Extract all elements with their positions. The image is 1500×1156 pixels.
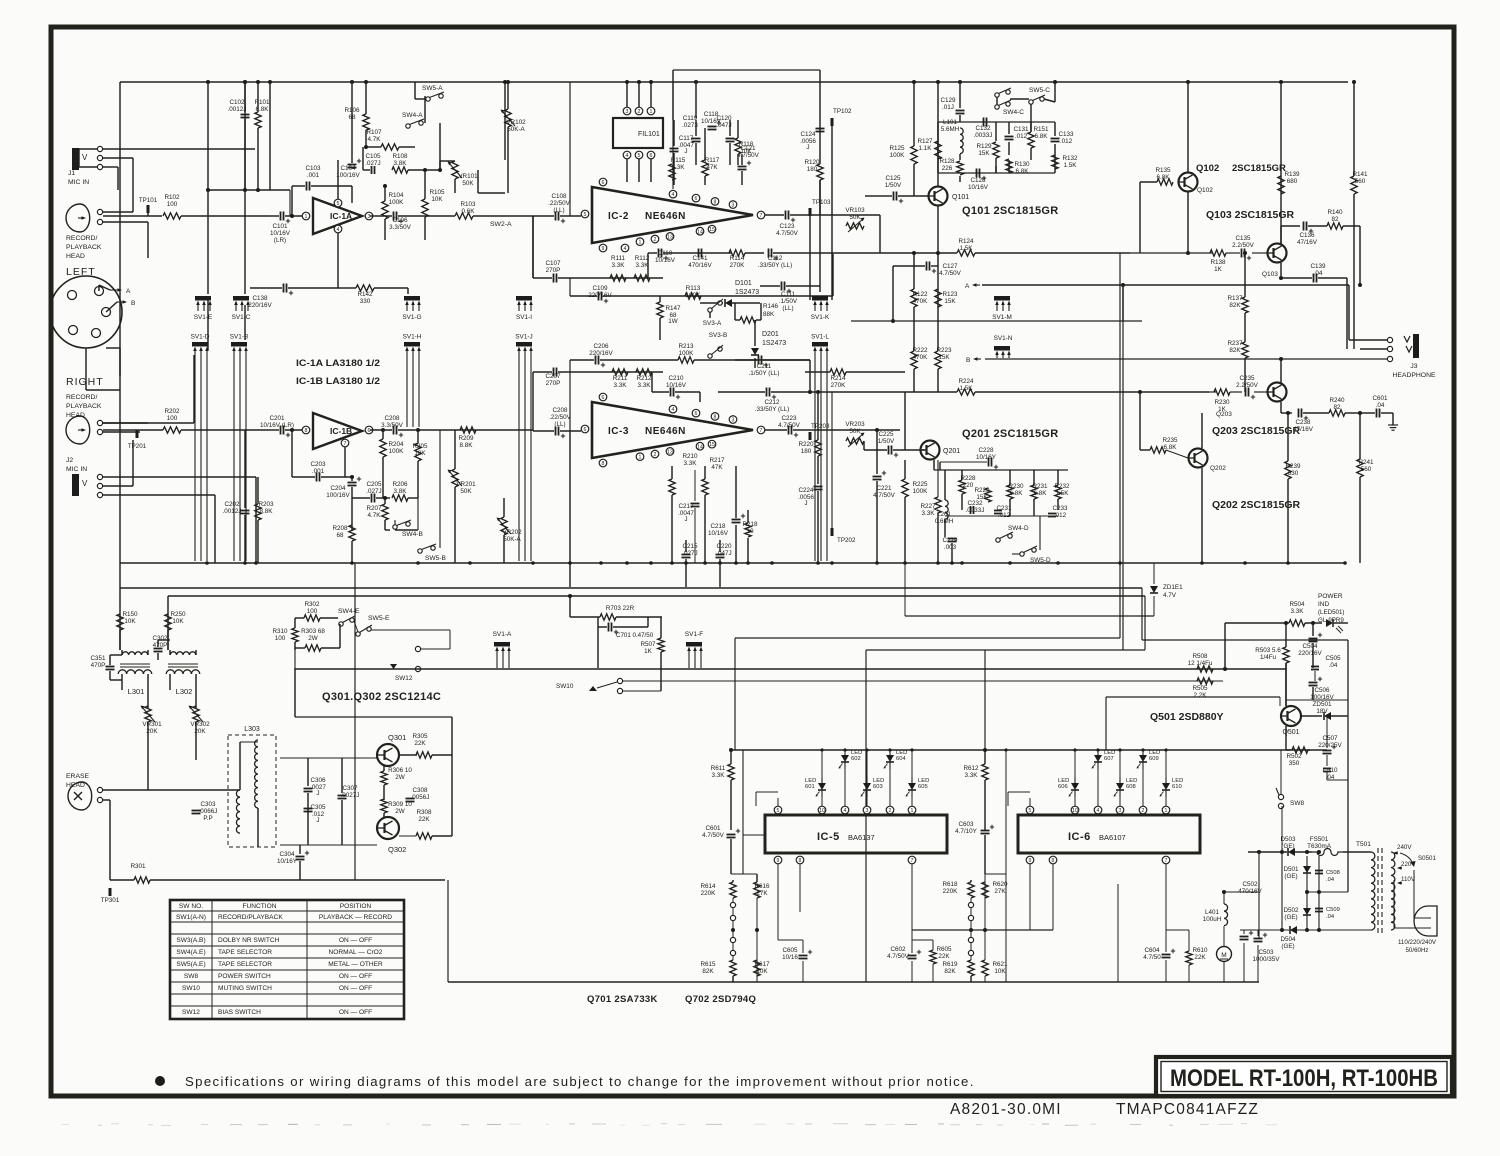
svg-text:V: V — [82, 153, 88, 162]
svg-text:2SC1815GR: 2SC1815GR — [1232, 163, 1286, 174]
svg-text:180: 180 — [807, 166, 818, 173]
svg-text:R301: R301 — [130, 863, 146, 870]
svg-text:RECORD/: RECORD/ — [66, 235, 97, 242]
svg-text:100K: 100K — [679, 350, 695, 357]
svg-text:ON — OFF: ON — OFF — [339, 985, 372, 992]
svg-text:8.8K: 8.8K — [260, 508, 274, 515]
svg-text:C136: C136 — [1299, 232, 1315, 239]
svg-text:10/16V (LR): 10/16V (LR) — [260, 422, 294, 429]
svg-text:110/220/240V: 110/220/240V — [1398, 939, 1437, 946]
svg-text:100K: 100K — [890, 152, 906, 159]
svg-text:SV1-E: SV1-E — [194, 314, 212, 321]
svg-text:J: J — [316, 817, 319, 824]
svg-text:Q501: Q501 — [1282, 729, 1299, 736]
svg-text:220/25V: 220/25V — [1318, 742, 1342, 749]
svg-text:10/16Y: 10/16Y — [976, 454, 997, 461]
svg-text:1: 1 — [639, 455, 642, 461]
svg-text:(GE): (GE) — [1281, 943, 1294, 950]
svg-text:50K: 50K — [462, 180, 474, 187]
svg-text:R208: R208 — [332, 525, 348, 532]
svg-text:POSITION: POSITION — [340, 903, 372, 910]
svg-text:ZD1E1: ZD1E1 — [1163, 584, 1183, 591]
svg-text:R615: R615 — [700, 961, 716, 968]
svg-text:.012: .012 — [1015, 133, 1028, 140]
svg-text:C220: C220 — [716, 543, 732, 550]
svg-text:TP101: TP101 — [139, 197, 158, 204]
svg-text:2: 2 — [1142, 808, 1145, 814]
svg-text:SV1-L: SV1-L — [811, 334, 829, 341]
svg-text:R209: R209 — [458, 435, 474, 442]
svg-text:2.2/50V: 2.2/50V — [1236, 382, 1259, 389]
svg-text:C503: C503 — [1258, 949, 1274, 956]
svg-text:J: J — [684, 516, 687, 523]
svg-text:8: 8 — [1052, 858, 1055, 864]
svg-text:R213: R213 — [678, 343, 694, 350]
svg-text:A8201-30.0MI: A8201-30.0MI — [950, 1101, 1062, 1118]
svg-text:50K-A: 50K-A — [507, 126, 525, 133]
svg-text:C225: C225 — [878, 431, 894, 438]
svg-text:(GE): (GE) — [1284, 914, 1297, 921]
svg-text:0.6MH: 0.6MH — [935, 518, 954, 525]
svg-text:Q301.Q302 2SC1214C: Q301.Q302 2SC1214C — [322, 691, 441, 703]
svg-text:Q301: Q301 — [388, 733, 406, 742]
svg-text:3.3K: 3.3K — [614, 382, 628, 389]
svg-text:FS501: FS501 — [1310, 836, 1329, 843]
svg-text:BIAS SWITCH: BIAS SWITCH — [218, 1009, 261, 1016]
svg-text:C505: C505 — [1325, 655, 1341, 662]
svg-text:.33/50Y (LL): .33/50Y (LL) — [758, 262, 793, 269]
svg-text:R127: R127 — [917, 138, 933, 145]
svg-text:C351: C351 — [90, 655, 106, 662]
svg-text:R206: R206 — [392, 481, 408, 488]
svg-text:C139: C139 — [1310, 263, 1326, 270]
svg-text:1/4Fu: 1/4Fu — [1260, 654, 1277, 661]
svg-text:10K: 10K — [124, 618, 136, 625]
svg-text:C605: C605 — [782, 947, 798, 954]
svg-text:C602: C602 — [890, 946, 906, 953]
svg-text:5: 5 — [777, 808, 780, 814]
svg-text:.0033J: .0033J — [966, 507, 985, 514]
svg-text:D101: D101 — [735, 280, 752, 287]
svg-text:13: 13 — [667, 235, 673, 241]
svg-text:6: 6 — [650, 153, 653, 159]
svg-text:8: 8 — [602, 461, 605, 467]
svg-text:.0012J: .0012J — [228, 106, 247, 113]
svg-text:1: 1 — [650, 109, 653, 115]
svg-text:1.5K: 1.5K — [1064, 162, 1078, 169]
svg-text:SW4(A.E): SW4(A.E) — [176, 949, 205, 956]
svg-text:Q501 2SD880Y: Q501 2SD880Y — [1150, 711, 1224, 723]
svg-text:TAPE SELECTOR: TAPE SELECTOR — [218, 949, 272, 956]
svg-text:6: 6 — [695, 411, 698, 417]
svg-text:L303: L303 — [244, 726, 260, 733]
svg-text:470/16V: 470/16V — [688, 262, 712, 269]
svg-text:14: 14 — [697, 444, 703, 450]
svg-text:SW4-E: SW4-E — [338, 608, 360, 615]
svg-text:(LED501): (LED501) — [1318, 609, 1344, 616]
svg-text:270K: 270K — [730, 262, 746, 269]
svg-text:C208: C208 — [552, 407, 568, 414]
svg-text:4.7K: 4.7K — [368, 512, 382, 519]
svg-text:4: 4 — [626, 153, 629, 159]
svg-text:1S2473: 1S2473 — [735, 289, 759, 296]
svg-text:Q302: Q302 — [388, 845, 406, 854]
svg-text:2W: 2W — [395, 774, 405, 781]
svg-text:SV1-J: SV1-J — [515, 334, 532, 341]
svg-text:10/16Y: 10/16Y — [277, 858, 298, 865]
svg-text:.0012J: .0012J — [223, 508, 242, 515]
svg-text:VR103: VR103 — [845, 207, 865, 214]
svg-text:13: 13 — [667, 450, 673, 456]
svg-text:C206: C206 — [593, 343, 609, 350]
svg-text:4.7V: 4.7V — [1163, 592, 1177, 599]
svg-text:Q202: Q202 — [1210, 465, 1226, 472]
svg-text:3: 3 — [732, 203, 735, 209]
svg-text:HEAD: HEAD — [66, 412, 85, 419]
svg-text:R222: R222 — [912, 347, 928, 354]
svg-text:R204: R204 — [388, 441, 404, 448]
svg-text:TP202: TP202 — [837, 537, 856, 544]
svg-text:R202: R202 — [164, 408, 180, 415]
svg-text:4.7/50V: 4.7/50V — [737, 152, 760, 159]
svg-text:C118: C118 — [704, 111, 719, 118]
svg-text:8: 8 — [714, 415, 717, 421]
svg-text:R505: R505 — [1192, 685, 1208, 692]
svg-text:R611: R611 — [711, 765, 726, 772]
svg-text:3: 3 — [1119, 808, 1122, 814]
svg-text:J: J — [804, 500, 807, 507]
svg-text:R150: R150 — [122, 611, 138, 618]
svg-text:R220: R220 — [798, 441, 814, 448]
svg-text:3.3K: 3.3K — [684, 460, 698, 467]
svg-text:3.8K: 3.8K — [394, 488, 408, 495]
svg-text:R147: R147 — [665, 305, 681, 312]
svg-text:7: 7 — [344, 441, 347, 447]
svg-text:R502: R502 — [1286, 753, 1302, 760]
svg-text:C201: C201 — [269, 415, 285, 422]
svg-text:METAL — OTHER: METAL — OTHER — [328, 961, 383, 968]
svg-text:SW5-B: SW5-B — [425, 555, 446, 562]
svg-text:R107: R107 — [366, 129, 382, 136]
svg-text:D503: D503 — [1280, 836, 1296, 843]
svg-text:5: 5 — [584, 212, 587, 218]
svg-text:10/16V: 10/16V — [708, 530, 729, 537]
svg-text:R214: R214 — [830, 375, 846, 382]
svg-text:L401: L401 — [1205, 909, 1220, 916]
svg-text:SW4-D: SW4-D — [1008, 525, 1029, 532]
svg-text:R305: R305 — [412, 733, 428, 740]
svg-text:.04: .04 — [1314, 270, 1323, 277]
svg-text:C221: C221 — [876, 485, 892, 492]
svg-text:RIGHT: RIGHT — [66, 376, 104, 388]
svg-text:8.8K: 8.8K — [460, 442, 474, 449]
svg-text:C215: C215 — [682, 543, 698, 550]
svg-text:2.2K: 2.2K — [1194, 692, 1208, 699]
svg-text:100: 100 — [167, 201, 178, 208]
svg-text:D201: D201 — [762, 331, 779, 338]
svg-text:(LL): (LL) — [782, 305, 793, 312]
svg-text:R124: R124 — [958, 238, 974, 245]
svg-text:100K: 100K — [389, 199, 405, 206]
svg-text:R223: R223 — [936, 347, 952, 354]
svg-text:R230: R230 — [1214, 399, 1230, 406]
svg-text:18V: 18V — [1316, 708, 1328, 715]
svg-text:5: 5 — [337, 201, 340, 207]
svg-text:R128: R128 — [939, 158, 955, 165]
svg-text:J3: J3 — [1410, 363, 1417, 370]
svg-text:2: 2 — [889, 808, 892, 814]
svg-text:350: 350 — [1289, 760, 1300, 767]
svg-text:BA6107: BA6107 — [1099, 833, 1126, 842]
svg-text:RECORD/: RECORD/ — [66, 394, 97, 401]
svg-text:FIL101: FIL101 — [638, 131, 660, 138]
svg-text:D501: D501 — [1283, 866, 1299, 873]
svg-text:PLAYBACK — RECORD: PLAYBACK — RECORD — [319, 914, 392, 921]
svg-text:R225: R225 — [912, 481, 928, 488]
svg-text:R114: R114 — [730, 255, 745, 262]
svg-text:SW5-A: SW5-A — [422, 85, 443, 92]
svg-text:226: 226 — [942, 165, 953, 172]
svg-text:R105: R105 — [429, 189, 445, 196]
svg-text:4: 4 — [337, 227, 340, 233]
svg-text:IC-3: IC-3 — [608, 426, 629, 437]
svg-text:IC-1B: IC-1B — [330, 426, 352, 436]
svg-text:608: 608 — [1126, 784, 1136, 790]
svg-text:220/16V: 220/16V — [1298, 650, 1322, 657]
svg-text:SW NO.: SW NO. — [179, 903, 203, 910]
svg-text:4: 4 — [1097, 808, 1100, 814]
svg-text:VR201: VR201 — [456, 481, 476, 488]
svg-text:C129: C129 — [940, 97, 956, 104]
svg-text:50K-A: 50K-A — [503, 536, 521, 543]
svg-text:SV1-F: SV1-F — [685, 631, 703, 638]
svg-text:C504: C504 — [1302, 643, 1318, 650]
svg-text:6: 6 — [602, 180, 605, 186]
svg-text:R503 5.6: R503 5.6 — [1255, 647, 1281, 654]
svg-text:TP102: TP102 — [833, 108, 852, 115]
svg-text:C508: C508 — [1326, 870, 1340, 876]
svg-text:1S2473: 1S2473 — [762, 340, 786, 347]
svg-text:R142: R142 — [357, 291, 373, 298]
svg-text:50K: 50K — [849, 428, 861, 435]
svg-text:3.3/50V: 3.3/50V — [381, 422, 404, 429]
svg-text:C202: C202 — [224, 501, 240, 508]
svg-text:(LR): (LR) — [274, 237, 286, 244]
svg-text:2W: 2W — [395, 808, 405, 815]
svg-text:L302: L302 — [176, 687, 193, 696]
svg-text:C224: C224 — [798, 487, 814, 494]
svg-text:PLAYBACK: PLAYBACK — [66, 244, 102, 251]
svg-text:4.7/50: 4.7/50 — [1143, 954, 1161, 961]
svg-text:S0501: S0501 — [1418, 855, 1436, 862]
svg-text:C125: C125 — [885, 175, 901, 182]
svg-text:SW8: SW8 — [184, 973, 199, 980]
svg-text:C507: C507 — [1322, 735, 1338, 742]
svg-text:88K: 88K — [763, 311, 775, 318]
svg-text:MODEL RT-100H, RT-100HB: MODEL RT-100H, RT-100HB — [1170, 1065, 1438, 1092]
svg-text:100/16V: 100/16V — [336, 172, 360, 179]
svg-text:1W: 1W — [668, 318, 678, 325]
svg-text:(GE): (GE) — [1284, 873, 1297, 880]
svg-text:NORMAL — CrO2: NORMAL — CrO2 — [329, 949, 383, 956]
svg-text:270K: 270K — [831, 382, 847, 389]
svg-text:DOLBY NR SWITCH: DOLBY NR SWITCH — [218, 937, 280, 944]
svg-text:220/16V: 220/16V — [248, 302, 272, 309]
svg-text:C141: C141 — [692, 255, 708, 262]
svg-text:R130: R130 — [1014, 161, 1030, 168]
svg-text:7: 7 — [1165, 858, 1168, 864]
svg-text:1000/35V: 1000/35V — [1253, 956, 1281, 963]
svg-text:R203: R203 — [258, 501, 274, 508]
svg-text:SV1-G: SV1-G — [402, 314, 421, 321]
svg-text:100K: 100K — [389, 448, 405, 455]
svg-text:6.8K: 6.8K — [1016, 168, 1030, 175]
svg-text:SV1-A: SV1-A — [493, 631, 512, 638]
svg-text:J2: J2 — [66, 457, 73, 464]
svg-text:5: 5 — [638, 153, 641, 159]
svg-text:3.3K: 3.3K — [612, 262, 626, 269]
svg-text:.0033J: .0033J — [974, 132, 993, 139]
svg-text:1/50V: 1/50V — [885, 182, 902, 189]
svg-text:47K: 47K — [706, 164, 718, 171]
svg-text:R303 68: R303 68 — [301, 628, 325, 635]
svg-text:.04: .04 — [1326, 877, 1335, 883]
svg-text:R125: R125 — [889, 145, 905, 152]
svg-text:C601: C601 — [705, 825, 721, 832]
svg-text:6: 6 — [695, 196, 698, 202]
svg-text:604: 604 — [896, 756, 906, 762]
svg-text:VR301: VR301 — [142, 721, 162, 728]
svg-text:47K: 47K — [711, 464, 723, 471]
svg-text:ON — OFF: ON — OFF — [339, 937, 372, 944]
svg-text:.003: .003 — [944, 544, 957, 551]
svg-text:C306: C306 — [310, 777, 326, 784]
svg-text:C109: C109 — [592, 285, 608, 292]
svg-text:R123: R123 — [942, 291, 958, 298]
svg-text:R507: R507 — [640, 641, 656, 648]
svg-text:C204: C204 — [330, 485, 346, 492]
svg-text:4.7/50V: 4.7/50V — [776, 230, 799, 237]
svg-text:R103: R103 — [460, 201, 476, 208]
svg-text:R703 22R: R703 22R — [606, 605, 635, 612]
svg-text:C308: C308 — [412, 787, 428, 794]
svg-text:470P: 470P — [91, 662, 106, 669]
svg-text:5.6MH: 5.6MH — [941, 126, 960, 133]
svg-text:3: 3 — [732, 418, 735, 424]
svg-text:6: 6 — [584, 427, 587, 433]
svg-text:R113: R113 — [686, 285, 701, 292]
svg-text:SV1-M: SV1-M — [992, 314, 1012, 321]
svg-text:C233: C233 — [1052, 505, 1068, 512]
svg-text:SW4-A: SW4-A — [402, 112, 423, 119]
svg-text:ON — OFF: ON — OFF — [339, 1009, 372, 1016]
svg-text:C133: C133 — [1058, 131, 1074, 138]
svg-text:.04: .04 — [1329, 662, 1338, 669]
svg-text:TP301: TP301 — [101, 897, 120, 904]
svg-text:C127: C127 — [942, 263, 958, 270]
svg-text:47/16V: 47/16V — [1293, 426, 1314, 433]
svg-text:3.3/50V: 3.3/50V — [389, 224, 412, 231]
svg-text:R618: R618 — [942, 881, 958, 888]
svg-text:C138: C138 — [252, 295, 268, 302]
svg-text:C108: C108 — [551, 193, 567, 200]
svg-text:IND: IND — [1318, 601, 1330, 608]
svg-text:POWER: POWER — [1318, 593, 1343, 600]
svg-text:IC-1A LA3180 1/2: IC-1A LA3180 1/2 — [296, 358, 380, 369]
svg-text:Q203 2SC1815GR: Q203 2SC1815GR — [1212, 425, 1301, 437]
svg-text:C111: C111 — [781, 291, 796, 298]
svg-text:B: B — [131, 300, 135, 307]
svg-text:SV1-D: SV1-D — [191, 334, 210, 341]
svg-text:10/16V: 10/16V — [968, 184, 989, 191]
svg-text:3: 3 — [866, 808, 869, 814]
svg-text:R135: R135 — [1155, 167, 1171, 174]
svg-text:2.2/50V: 2.2/50V — [1232, 242, 1255, 249]
svg-text:C307: C307 — [342, 785, 358, 792]
svg-text:C305: C305 — [310, 804, 326, 811]
svg-text:R212: R212 — [636, 375, 652, 382]
svg-text:4: 4 — [624, 246, 627, 252]
svg-text:L301: L301 — [128, 687, 145, 696]
svg-text:240V: 240V — [1397, 844, 1412, 851]
svg-text:8: 8 — [799, 858, 802, 864]
svg-text:SV1-K: SV1-K — [811, 314, 830, 321]
svg-text:C131: C131 — [1013, 126, 1029, 133]
svg-text:6: 6 — [368, 428, 371, 434]
svg-text:A: A — [965, 283, 970, 290]
svg-text:.01J: .01J — [942, 104, 954, 111]
svg-text:R508: R508 — [1192, 653, 1208, 660]
svg-text:T501: T501 — [1356, 841, 1371, 848]
svg-text:R106: R106 — [344, 107, 360, 114]
svg-text:MIC IN: MIC IN — [68, 179, 89, 186]
svg-text:R146: R146 — [763, 303, 779, 310]
svg-text:4: 4 — [672, 192, 675, 198]
svg-text:R308: R308 — [416, 809, 432, 816]
svg-text:R621: R621 — [992, 961, 1008, 968]
svg-text:SV3-B: SV3-B — [709, 332, 727, 339]
svg-text:IC-6: IC-6 — [1068, 831, 1091, 843]
svg-text:15K: 15K — [978, 150, 990, 157]
svg-text:SW2-A: SW2-A — [490, 221, 512, 228]
svg-text:4: 4 — [844, 808, 847, 814]
svg-text:R306 10: R306 10 — [388, 767, 412, 774]
svg-text:330: 330 — [360, 298, 371, 305]
svg-text:607: 607 — [1104, 756, 1114, 762]
svg-text:R132: R132 — [1062, 155, 1078, 162]
svg-text:3.3K: 3.3K — [638, 382, 652, 389]
svg-text:Q201 2SC1815GR: Q201 2SC1815GR — [962, 428, 1059, 440]
svg-text:SW5-C: SW5-C — [1029, 87, 1050, 94]
svg-text:15: 15 — [709, 227, 715, 233]
svg-text:C302: C302 — [152, 635, 168, 642]
svg-text:10/16V: 10/16V — [666, 382, 687, 389]
svg-text:C235: C235 — [1239, 375, 1255, 382]
svg-text:L201: L201 — [937, 511, 952, 518]
svg-text:3.3K: 3.3K — [922, 510, 936, 517]
svg-text:10K: 10K — [172, 618, 184, 625]
svg-text:4.7/50V: 4.7/50V — [939, 270, 962, 277]
svg-text:C105: C105 — [365, 153, 381, 160]
svg-text:C604: C604 — [1144, 947, 1160, 954]
svg-text:Q701 2SA733K: Q701 2SA733K — [587, 994, 658, 1005]
svg-text:10K: 10K — [994, 968, 1006, 975]
svg-text:FUNCTION: FUNCTION — [242, 903, 276, 910]
svg-text:R141: R141 — [1352, 171, 1368, 178]
svg-text:IC-2: IC-2 — [608, 211, 629, 222]
svg-text:220/16V: 220/16V — [589, 350, 613, 357]
svg-text:R610: R610 — [1192, 947, 1208, 954]
